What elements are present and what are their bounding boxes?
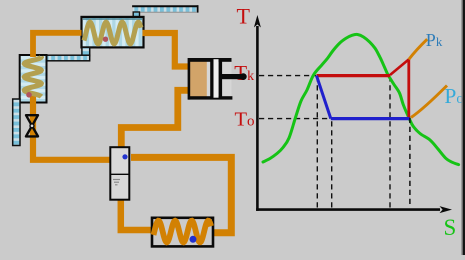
svg-text:S: S [444,215,457,240]
svg-text:T: T [237,4,251,29]
